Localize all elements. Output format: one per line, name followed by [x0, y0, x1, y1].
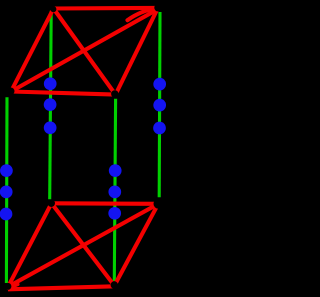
wire red edge BL'-BR' — [8, 286, 114, 289]
node blue vertex L4 dot2 — [153, 99, 166, 112]
node blue vertex L1 dot1 — [0, 164, 13, 177]
wire red edge BL-BR — [11, 92, 116, 95]
wire green path edge BL to BL' — [5, 97, 9, 283]
node blue vertex L3 dot3 — [108, 207, 121, 220]
node blue vertex L3 dot1 — [109, 164, 122, 177]
node black vertex disc BR — [111, 90, 118, 97]
wire red stub from BL' — [8, 284, 18, 288]
wire green path edge TR to TR' — [158, 12, 162, 197]
node blue vertex L4 dot3 — [153, 122, 166, 135]
node blue vertex L3 dot2 — [108, 186, 121, 199]
wire red edge TL'-BR' — [52, 203, 115, 285]
node black vertex disc BR' — [111, 281, 118, 288]
wire red edge TL'-BL' — [8, 203, 52, 286]
wire red edge TL-TR — [54, 6, 159, 11]
node black vertex disc BL' — [4, 283, 11, 290]
node black vertex disc TL — [50, 6, 56, 12]
node black vertex disc BL — [7, 88, 14, 95]
node black vertex disc TL' — [48, 200, 55, 207]
wire red edge TL-BR — [54, 9, 116, 95]
node blue vertex L1 dot2 — [0, 186, 13, 199]
node blue vertex L4 dot1 — [153, 78, 166, 91]
wire red edge TR'-BR' — [114, 204, 158, 286]
wire red edge TL-BL — [11, 9, 54, 92]
wire red edge TR-BL — [11, 9, 158, 91]
node blue vertex L2 dot1 — [44, 77, 57, 90]
node black vertex disc TR' — [154, 199, 164, 209]
wire red stub from TR — [128, 8, 159, 21]
node blue vertex L2 dot2 — [44, 98, 57, 111]
wire green path edge TL to TL' — [50, 11, 52, 199]
node blue vertex L1 dot3 — [0, 208, 12, 221]
wire red edge TR-BR — [116, 8, 159, 95]
wire green path edge BR to BR' — [114, 99, 115, 281]
node black vertex disc TR — [154, 4, 161, 11]
wire red edge TL'-TR' — [52, 201, 159, 206]
node blue vertex L2 dot3 — [44, 121, 57, 134]
wire red edge TR'-BL' — [8, 204, 158, 287]
